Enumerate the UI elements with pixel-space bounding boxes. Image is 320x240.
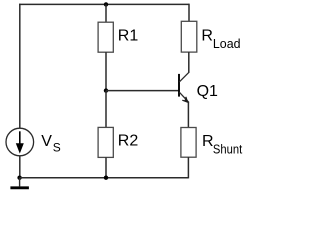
wire from top rail to R1 bbox=[105, 4, 107, 22]
current source VS circle bbox=[6, 128, 34, 156]
svg-text:Q1: Q1 bbox=[197, 83, 218, 100]
wire base from middle node to Q1 bbox=[106, 90, 179, 92]
wire top rail bbox=[19, 3, 189, 5]
wire from R2 to bottom rail bbox=[105, 157, 107, 177]
resistor R1 bbox=[98, 22, 113, 52]
label RShunt bbox=[202, 133, 243, 156]
wire bottom rail bbox=[20, 177, 189, 179]
node junction bottom (R2 to rail) bbox=[104, 176, 108, 180]
wire from top rail to RLoad bbox=[188, 4, 190, 22]
node junction bottom-left bbox=[17, 176, 21, 180]
wire from current source bottom to ground node bbox=[19, 156, 21, 178]
svg-text:R1: R1 bbox=[118, 27, 139, 44]
node junction middle (base node) bbox=[104, 88, 108, 92]
node junction top (divider column) bbox=[104, 2, 108, 6]
resistor R2 bbox=[98, 127, 113, 157]
svg-text:V: V bbox=[41, 133, 52, 150]
transistor Q1 bbox=[179, 72, 189, 103]
wire left vertical from top rail to current source bbox=[19, 4, 21, 129]
current source arrow bbox=[16, 131, 24, 153]
ground bbox=[10, 178, 29, 188]
wire from middle node to R2 bbox=[105, 91, 107, 128]
resistor RLoad bbox=[181, 21, 197, 52]
svg-text:R: R bbox=[201, 27, 213, 44]
wire from RShunt to bottom rail bbox=[187, 157, 189, 178]
label RLoad bbox=[201, 27, 240, 51]
wire from R1 to middle node bbox=[105, 52, 107, 90]
svg-text:Shunt: Shunt bbox=[213, 141, 243, 156]
svg-text:R: R bbox=[202, 133, 214, 150]
resistor RShunt bbox=[181, 128, 196, 158]
label VS bbox=[41, 133, 61, 154]
svg-text:Load: Load bbox=[213, 36, 241, 51]
svg-text:R2: R2 bbox=[118, 133, 139, 150]
svg-text:S: S bbox=[53, 140, 61, 154]
wire emitter from Q1 to RShunt bbox=[187, 102, 189, 128]
wire collector from RLoad to Q1 bbox=[188, 52, 190, 72]
